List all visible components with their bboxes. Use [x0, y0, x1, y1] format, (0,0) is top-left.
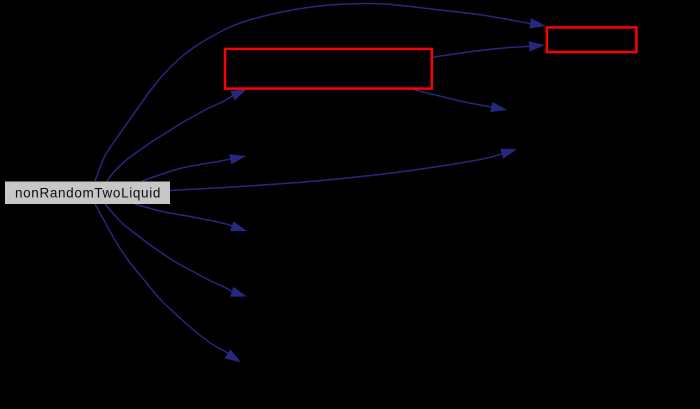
edge G: nonRandomTwoLiquid -> hidden node (y~362): [95, 204, 241, 363]
edge H: large red box -> hidden node (y~110): [415, 90, 507, 112]
edge D: nonRandomTwoLiquid -> hidden node far right (long flat curve): [169, 149, 517, 191]
svg-text:nonRandomTwoLiquid: nonRandomTwoLiquid: [15, 186, 161, 201]
edge A: nonRandomTwoLiquid -> node above (top arc): [95, 3, 546, 181]
edge B: nonRandomTwoLiquid -> large red box: [107, 89, 247, 181]
node: nonRandomTwoLiquid (current file, gray fill): [5, 182, 170, 205]
edge I: large red box -> small red box: [431, 41, 545, 57]
node: small red box (truncated dependency): [547, 27, 637, 52]
edge F: nonRandomTwoLiquid -> hidden node (y~296): [105, 204, 247, 297]
node: large red box (truncated dependency): [225, 49, 432, 89]
edge C: nonRandomTwoLiquid -> hidden node right-mid-upper: [142, 154, 246, 181]
edge E: nonRandomTwoLiquid -> hidden node (y~231): [135, 204, 247, 231]
